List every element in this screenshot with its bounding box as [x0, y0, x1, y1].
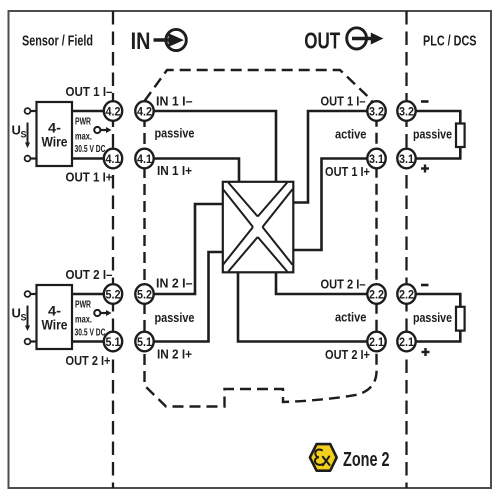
- terminal 3.1 (PLC side): [397, 149, 415, 169]
- terminal 4.1 (field side): [104, 149, 122, 169]
- Ex hexagon logo: [310, 444, 337, 471]
- terminal 2.2 (PLC side): [397, 284, 415, 304]
- 4-Wire box 1 (channel 1 transmitter): [37, 102, 73, 166]
- svg-text:30.5 V DC: 30.5 V DC: [75, 143, 106, 155]
- terminal circle bottom of 4-Wire 2: [25, 339, 31, 345]
- wire 4-Wire1 to terminal 4.2: [72, 110, 104, 113]
- wire IN 4.1 to isolator top: [150, 159, 239, 184]
- svg-text:OUT 2 I+: OUT 2 I+: [325, 348, 370, 362]
- svg-text:OUT 1 I+: OUT 1 I+: [325, 165, 370, 179]
- svg-text:30.5 V DC: 30.5 V DC: [75, 327, 106, 339]
- svg-text:OUT 2 I–: OUT 2 I–: [321, 278, 366, 292]
- terminal 5.1 (field side): [104, 332, 122, 352]
- svg-text:U: U: [12, 123, 21, 138]
- svg-text:4.2: 4.2: [106, 104, 121, 118]
- svg-text:max.: max.: [75, 314, 92, 326]
- svg-text:U: U: [12, 306, 21, 321]
- load resistor R channel 2: [456, 307, 465, 331]
- terminal circle top of 4-Wire 2: [25, 291, 31, 297]
- svg-text:Sensor / Field: Sensor / Field: [22, 34, 93, 50]
- wire isolator right to OUT 3.1: [293, 159, 372, 251]
- Us source label 1: [12, 123, 31, 149]
- svg-text:passive: passive: [155, 310, 195, 325]
- terminal 2.2 (device OUT): [367, 284, 385, 304]
- svg-text:4.1: 4.1: [137, 152, 152, 166]
- svg-text:passive: passive: [413, 127, 452, 142]
- wire 4-Wire2 to terminal 5.2: [72, 293, 104, 296]
- terminal 5.2 (field side): [104, 284, 122, 304]
- load resistor R channel 1: [456, 124, 465, 148]
- wire isolator right to OUT 3.2: [293, 111, 372, 203]
- header IN with arrow-into-circle icon: [131, 28, 187, 55]
- svg-text:3.2: 3.2: [369, 104, 384, 118]
- svg-text:5.1: 5.1: [137, 335, 152, 349]
- PWR LED indicator 1: [94, 127, 111, 133]
- svg-text:3.1: 3.1: [369, 152, 384, 166]
- svg-text:OUT: OUT: [304, 27, 340, 53]
- terminal 2.1 (device OUT): [367, 332, 385, 352]
- svg-text:PWR: PWR: [75, 116, 91, 128]
- svg-text:2.1: 2.1: [399, 335, 414, 349]
- terminal 4.2 (field side): [104, 101, 122, 121]
- dashed separator line left (Sensor/Field | IN): [112, 11, 114, 488]
- svg-text:S: S: [21, 313, 27, 323]
- svg-text:5.2: 5.2: [106, 287, 121, 301]
- wire PLC 3.2 to load resistor: [412, 111, 460, 125]
- svg-text:3.1: 3.1: [399, 152, 414, 166]
- svg-text:5.1: 5.1: [106, 335, 121, 349]
- wire IN 4.2 to isolator top: [150, 111, 276, 183]
- svg-text:active: active: [335, 127, 367, 142]
- terminal 2.1 (PLC side): [397, 332, 415, 352]
- svg-text:passive: passive: [155, 126, 195, 141]
- Ex zone dashed boundary: [145, 70, 377, 407]
- svg-text:OUT 1 I+: OUT 1 I+: [66, 171, 113, 185]
- svg-text:OUT 2 I+: OUT 2 I+: [66, 354, 111, 368]
- svg-text:4.2: 4.2: [137, 104, 152, 118]
- wire load resistor to PLC 3.1: [412, 146, 460, 159]
- svg-text:2.2: 2.2: [399, 287, 414, 301]
- wire 4-Wire2 to terminal 5.1: [72, 340, 104, 343]
- svg-text:IN 1 I+: IN 1 I+: [157, 164, 192, 178]
- svg-text:IN 2 I–: IN 2 I–: [156, 277, 193, 291]
- svg-text:3.2: 3.2: [399, 104, 414, 118]
- terminal 3.2 (device OUT): [367, 101, 385, 121]
- svg-text:2.2: 2.2: [369, 287, 384, 301]
- svg-text:IN 1 I–: IN 1 I–: [156, 95, 193, 109]
- svg-text:IN: IN: [131, 28, 151, 55]
- wire PLC 2.2 to load resistor: [412, 294, 460, 308]
- 4-Wire box 2 (channel 2 transmitter): [37, 285, 73, 349]
- svg-text:IN 2 I+: IN 2 I+: [157, 348, 192, 362]
- wire isolator bottom to OUT 2.2: [276, 272, 371, 295]
- svg-text:PWR: PWR: [75, 299, 91, 311]
- terminal 3.1 (device OUT): [367, 149, 385, 169]
- Us source label 2: [12, 306, 31, 332]
- svg-text:max.: max.: [75, 131, 92, 143]
- svg-text:Wire: Wire: [42, 134, 68, 150]
- label plus PLC ch2: [422, 348, 430, 356]
- terminal 5.2 (device IN): [135, 284, 153, 304]
- PWR LED indicator 2: [94, 310, 111, 316]
- svg-text:OUT 1 I–: OUT 1 I–: [66, 85, 113, 99]
- terminal circle bottom of 4-Wire 1: [25, 156, 31, 162]
- terminal 4.1 (device IN): [135, 149, 153, 169]
- wire load resistor to PLC 2.1: [412, 330, 460, 342]
- svg-text:Wire: Wire: [42, 317, 68, 333]
- svg-text:5.2: 5.2: [137, 287, 152, 301]
- wire IN 5.1 to isolator left: [150, 252, 223, 342]
- wire isolator bottom to OUT 2.1: [238, 272, 371, 342]
- svg-text:OUT 2 I–: OUT 2 I–: [66, 268, 113, 282]
- svg-text:active: active: [335, 310, 367, 325]
- dashed separator line right (OUT | PLC/DCS): [405, 11, 407, 488]
- svg-text:passive: passive: [413, 310, 452, 325]
- label plus PLC ch1: [421, 165, 429, 173]
- terminal 4.2 (device IN): [135, 101, 153, 121]
- label minus PLC ch2: [421, 284, 429, 287]
- svg-text:Zone 2: Zone 2: [343, 449, 390, 471]
- wire IN 5.2 to isolator left: [150, 204, 223, 294]
- label minus PLC ch1: [421, 100, 429, 103]
- svg-text:S: S: [21, 130, 27, 140]
- wire 4-Wire1 to terminal 4.1: [72, 157, 104, 160]
- terminal 3.2 (PLC side): [397, 101, 415, 121]
- header OUT with arrow-out-of-circle icon: [304, 27, 383, 53]
- svg-text:OUT 1 I–: OUT 1 I–: [321, 95, 366, 109]
- isolator transformer box: [223, 182, 293, 272]
- terminal circle top of 4-Wire 1: [25, 108, 31, 114]
- terminal 5.1 (device IN): [135, 332, 153, 352]
- svg-text:PLC / DCS: PLC / DCS: [423, 34, 477, 50]
- svg-text:4.1: 4.1: [106, 152, 121, 166]
- svg-text:2.1: 2.1: [369, 335, 384, 349]
